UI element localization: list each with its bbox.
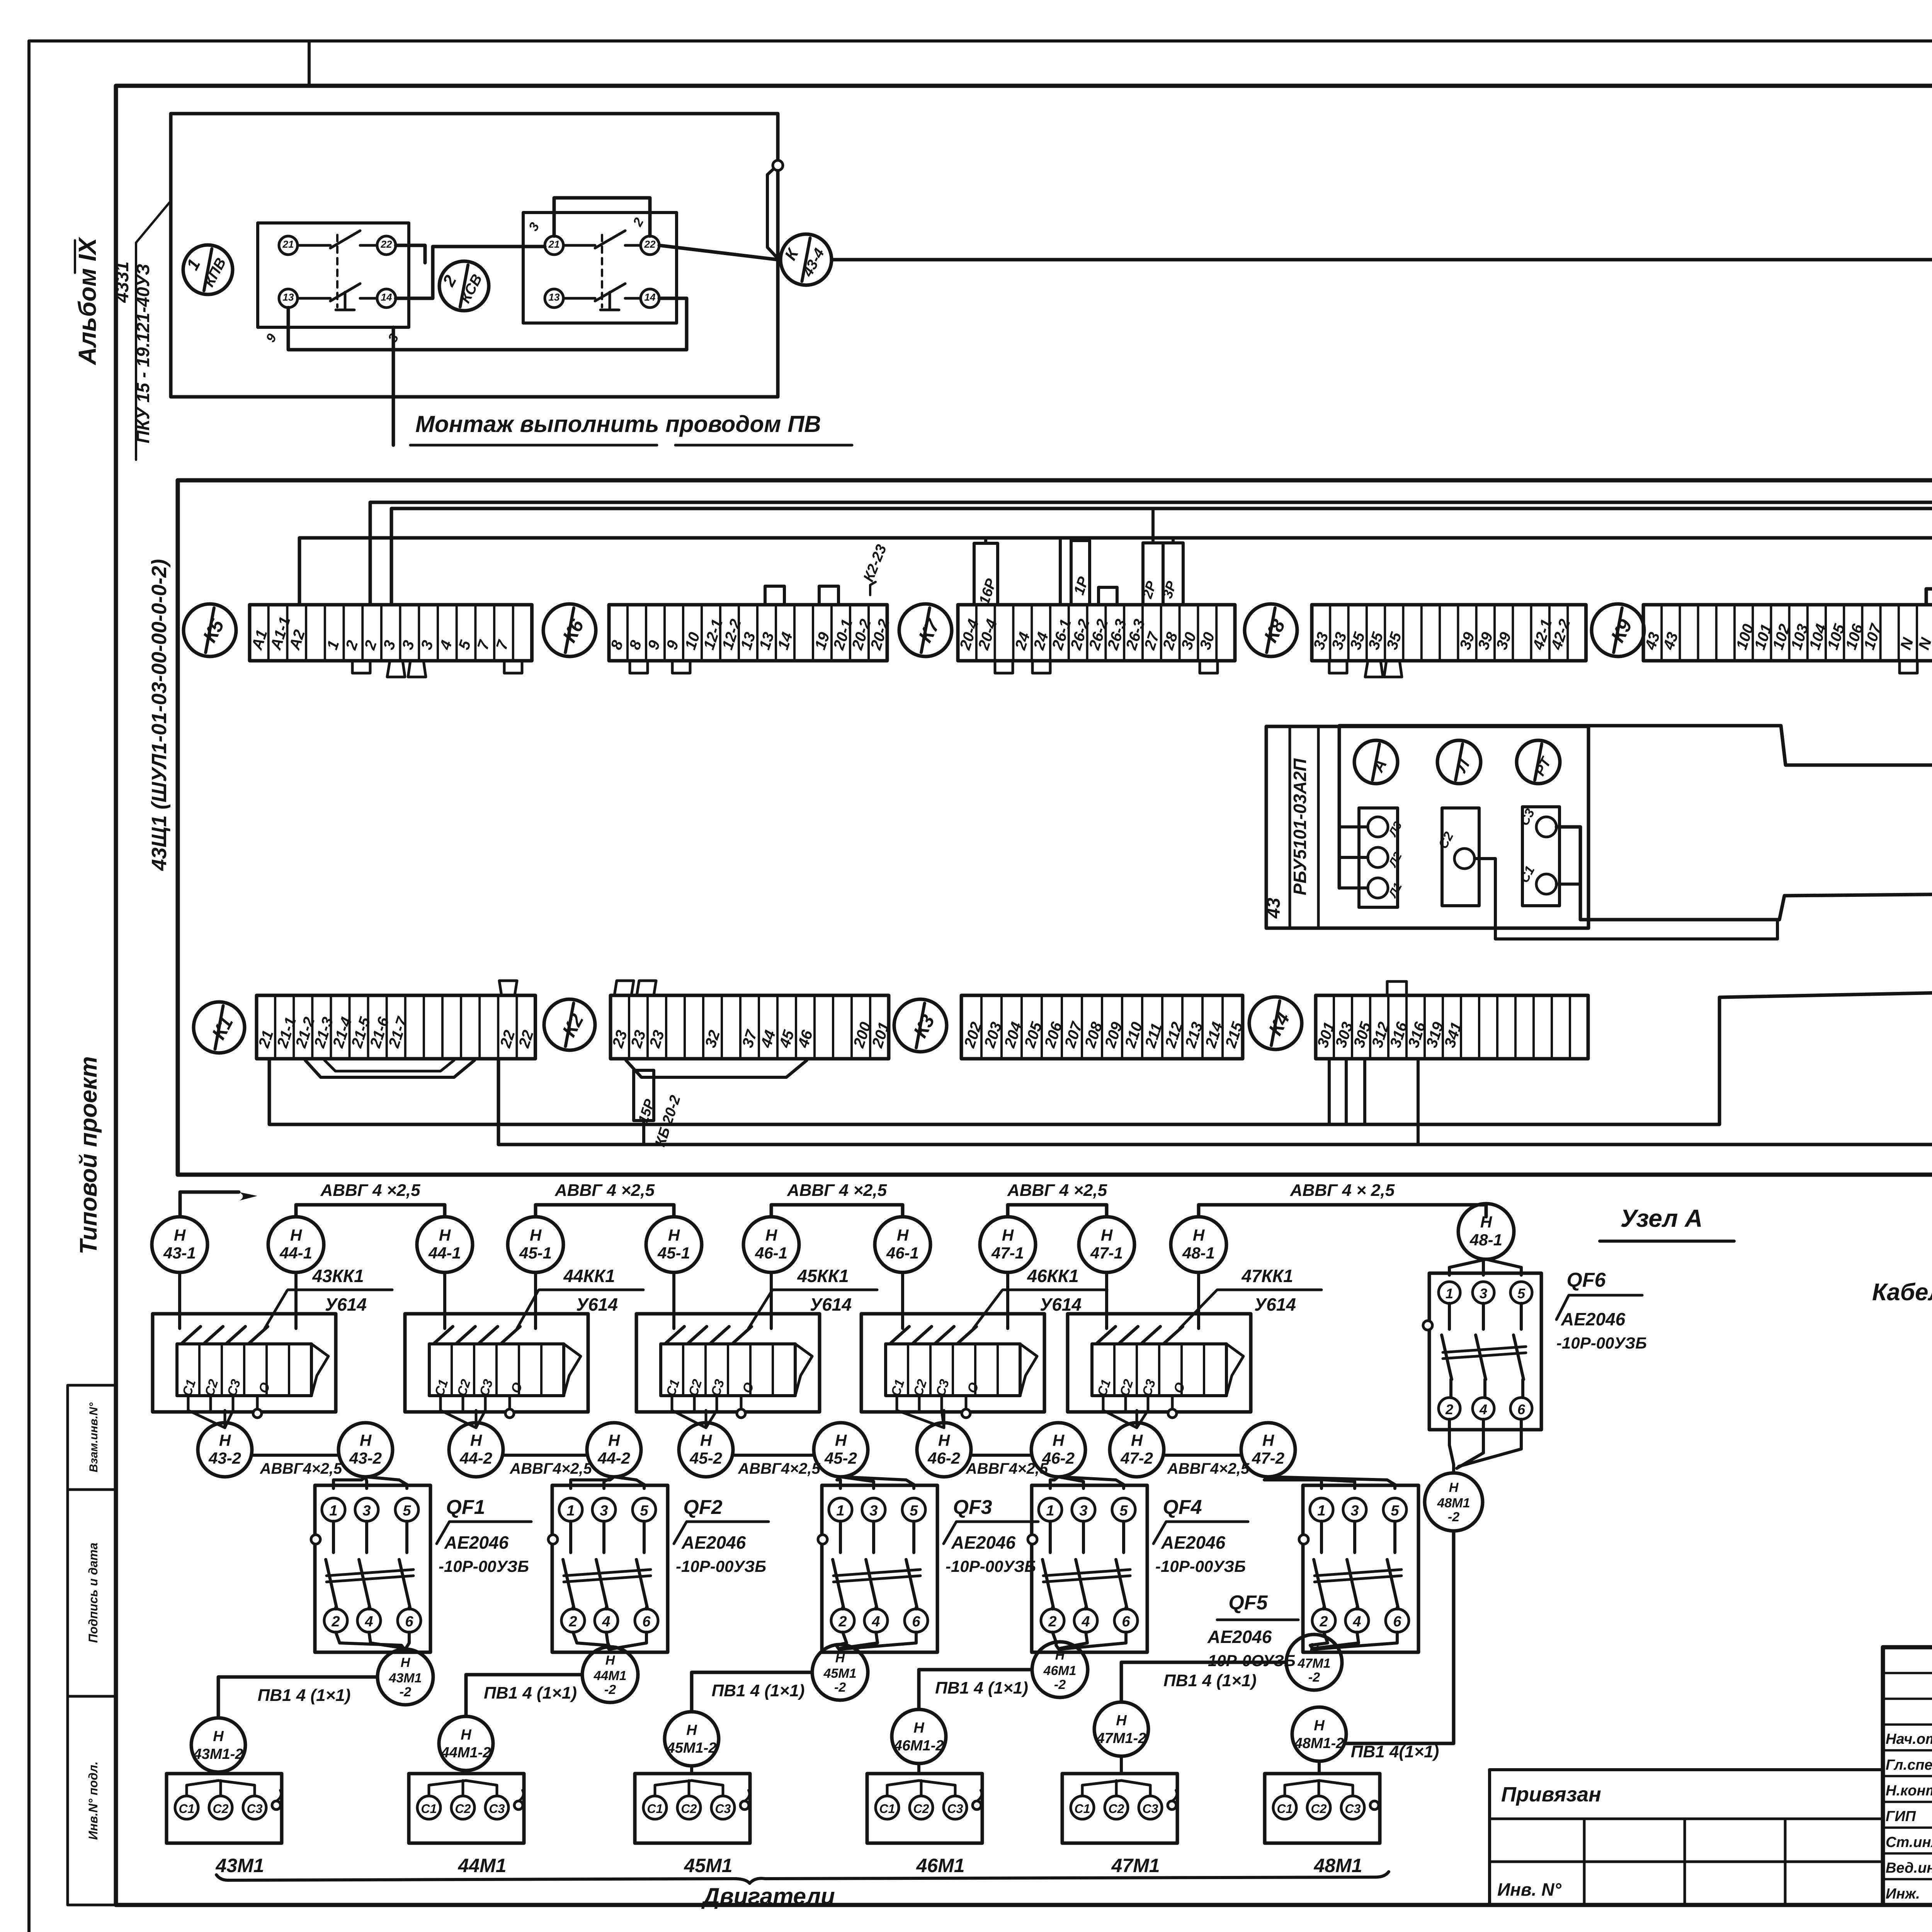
svg-text:-2: -2 [1054, 1677, 1066, 1692]
cable marker N45-2 (left) [679, 1423, 733, 1477]
bump above 20-1 [819, 586, 838, 605]
wire O cell to node [1171, 1396, 1174, 1409]
zone tick top border [308, 41, 311, 86]
svg-text:Н: Н [765, 1226, 778, 1244]
svg-text:6: 6 [1122, 1614, 1130, 1630]
svg-text:3: 3 [1350, 1503, 1359, 1519]
svg-text:Н: Н [1193, 1226, 1205, 1244]
breaker pole terminal 1 [322, 1498, 345, 1521]
svg-text:С3: С3 [715, 1802, 731, 1816]
cable marker N44M1-2 (upper) [582, 1647, 638, 1702]
breaker bottom merge [1053, 1632, 1060, 1651]
svg-text:С3: С3 [1143, 1802, 1158, 1816]
svg-text:-10Р-00УЗБ: -10Р-00УЗБ [439, 1557, 529, 1575]
svg-text:43-1: 43-1 [163, 1244, 196, 1262]
svg-text:4: 4 [1081, 1614, 1090, 1630]
relay cell strip [429, 1344, 564, 1396]
svg-text:4: 4 [871, 1614, 880, 1630]
svg-text:Типовой проект: Типовой проект [75, 1056, 102, 1255]
relay hatches [182, 1327, 201, 1343]
motor 48M1 terminal С3 [1341, 1796, 1364, 1819]
cable marker N44-2 (left) [449, 1423, 503, 1477]
feed fan [571, 1477, 614, 1488]
wire 13A to 14B [288, 298, 687, 350]
svg-text:С1: С1 [1075, 1802, 1090, 1816]
contact blade top A [298, 244, 330, 247]
remote control unit outer box 4331 [171, 114, 778, 397]
controller RBU5101-03A2P box [1266, 726, 1588, 928]
switch 1/KPV [183, 245, 233, 294]
cable marker N48-1 (outgoing) [1171, 1217, 1226, 1272]
breaker trip bar [833, 1570, 920, 1576]
terminal strip K2 [611, 995, 889, 1059]
svg-text:44-1: 44-1 [279, 1244, 312, 1262]
svg-text:АВВГ4×2,5: АВВГ4×2,5 [260, 1460, 342, 1477]
breaker QF2 box [552, 1485, 668, 1652]
feed fan [333, 1477, 366, 1488]
svg-text:Н: Н [290, 1226, 303, 1244]
wire C2 route [1475, 859, 1777, 939]
cable bracket AVVG [1199, 1205, 1486, 1217]
svg-text:4331: 4331 [112, 262, 133, 303]
svg-text:С3: С3 [247, 1802, 263, 1816]
svg-text:АЕ2046: АЕ2046 [1161, 1532, 1226, 1553]
motor 47M1 terminal box [1062, 1774, 1177, 1843]
wires L1-L3 left [1339, 825, 1368, 828]
svg-text:ПВ1 4 (1×1): ПВ1 4 (1×1) [712, 1681, 805, 1700]
svg-text:3: 3 [869, 1503, 878, 1519]
pin 13 of block B [545, 289, 563, 308]
breaker trip bar [327, 1570, 413, 1576]
breaker left node [548, 1535, 558, 1544]
svg-text:45-2: 45-2 [824, 1449, 857, 1467]
svg-text:Н: Н [461, 1727, 472, 1743]
svg-text:-10Р-00УЗБ: -10Р-00УЗБ [1155, 1557, 1246, 1575]
svg-text:44-1: 44-1 [428, 1244, 461, 1262]
switch 2/KSV [439, 261, 489, 311]
cable marker N46-1 (outgoing) [743, 1217, 799, 1272]
breaker pole terminal 3 [862, 1498, 885, 1521]
cable marker N43M1-2 (lower) [191, 1718, 245, 1772]
cable marker N43-2 (right) [338, 1423, 393, 1477]
breaker trip bar [1043, 1570, 1130, 1576]
svg-text:С2: С2 [1311, 1802, 1327, 1816]
motor terminal С3 [1139, 1796, 1162, 1819]
svg-text:-10Р-00УЗБ: -10Р-00УЗБ [676, 1557, 766, 1575]
svg-text:Н: Н [1131, 1431, 1143, 1449]
motor terminal С2 [910, 1796, 933, 1819]
cable marker N45M1-2 (upper) [812, 1645, 868, 1700]
svg-text:2: 2 [1319, 1614, 1328, 1630]
cable wire AVVG row2 [503, 1454, 587, 1457]
terminal strip K3 [961, 995, 1243, 1059]
svg-text:У614: У614 [325, 1294, 367, 1315]
svg-text:43-2: 43-2 [349, 1449, 382, 1467]
wire PV1 horizontal [466, 1675, 582, 1716]
svg-text:Н: Н [1449, 1480, 1459, 1495]
svg-text:44КК1: 44КК1 [563, 1266, 615, 1286]
svg-text:Подпись и дата: Подпись и дата [86, 1543, 100, 1643]
svg-text:46-1: 46-1 [755, 1244, 787, 1262]
svg-text:Н: Н [938, 1431, 951, 1449]
svg-text:Н: Н [608, 1431, 621, 1449]
svg-text:ПВ1 4 (1×1): ПВ1 4 (1×1) [1163, 1671, 1257, 1690]
relay bottom wires [439, 1396, 442, 1410]
svg-text:АВВГ 4 ×2,5: АВВГ 4 ×2,5 [554, 1181, 655, 1200]
motor terminal С1 [643, 1796, 667, 1819]
breaker QF6 box [1429, 1273, 1541, 1430]
breaker pole terminal 4 [1074, 1609, 1097, 1632]
svg-text:1: 1 [329, 1503, 337, 1519]
motor 48M1 wiring [1318, 1761, 1321, 1774]
svg-text:13: 13 [283, 291, 294, 303]
svg-text:Н: Н [700, 1431, 713, 1449]
cable marker N46-2 (right) [1031, 1423, 1085, 1477]
svg-text:5: 5 [1517, 1286, 1526, 1301]
svg-text:14: 14 [645, 291, 656, 303]
contact block B of PKU [523, 213, 677, 323]
svg-text:45М1: 45М1 [823, 1666, 856, 1681]
tabs above strip K2 cells 23 [614, 981, 634, 995]
QF6 left node [1423, 1321, 1432, 1330]
label divider line [135, 243, 137, 460]
svg-text:Н: Н [360, 1431, 372, 1449]
QF6 poles [1448, 1303, 1451, 1329]
breaker pole terminal 2 [324, 1609, 347, 1632]
wire 47-1 down [1105, 1272, 1108, 1328]
motor terminal С3 [711, 1796, 735, 1819]
relay hatches [666, 1327, 684, 1343]
relay cell strip [661, 1344, 795, 1396]
bump above 26-2 [1099, 587, 1117, 605]
breaker trip bar [564, 1570, 651, 1576]
terminal block L1 L2 L3 [1359, 808, 1398, 907]
svg-text:4: 4 [1479, 1401, 1487, 1417]
relay hatches [1097, 1327, 1116, 1343]
svg-text:С3: С3 [1345, 1802, 1361, 1816]
svg-text:С2: С2 [681, 1802, 697, 1816]
motor box wiring [464, 1770, 468, 1774]
breaker pole terminal 4 [595, 1609, 618, 1632]
svg-text:48М1-2: 48М1-2 [1294, 1735, 1344, 1752]
terminal block C1 C3 [1522, 807, 1560, 906]
motor terminal С3 [944, 1796, 967, 1819]
svg-text:АВВГ 4 ×2,5: АВВГ 4 ×2,5 [787, 1181, 887, 1200]
thermal relay 44KK1 box [405, 1314, 588, 1412]
svg-text:У614: У614 [810, 1294, 852, 1315]
cable marker N45-2 (right) [814, 1423, 868, 1477]
feed fan [837, 1477, 841, 1488]
breaker trip bar [1315, 1570, 1401, 1576]
wire 48-1 down [1197, 1272, 1200, 1328]
svg-text:47М1: 47М1 [1111, 1855, 1160, 1876]
svg-text:С2: С2 [1109, 1802, 1124, 1816]
contact blade bottom B [563, 297, 595, 300]
motor box wiring [1120, 1756, 1123, 1774]
svg-text:Кабельный журнал L 86: Кабельный журнал L 86 [1872, 1279, 1932, 1306]
indicator RT [1517, 740, 1560, 784]
title block signature rows [1883, 1672, 1932, 1674]
wire W3 to bus [1926, 589, 1932, 605]
svg-text:Монтаж выполнить проводом: Монтаж выполнить проводом ПВ [415, 411, 821, 437]
breaker QF5 box [1303, 1485, 1418, 1652]
svg-text:47-2: 47-2 [1120, 1449, 1153, 1467]
breaker bottom merge [836, 1632, 847, 1651]
wire 16R up [984, 538, 987, 543]
wire O cell to node [740, 1396, 743, 1409]
contact blade top B [563, 244, 595, 247]
svg-text:48М1: 48М1 [1313, 1855, 1362, 1876]
motor 48M1 terminal С1 [1273, 1796, 1296, 1819]
raised terminal 3R [1163, 543, 1183, 605]
relay right diagonal [1226, 1344, 1243, 1396]
wire PV1 horizontal [1121, 1662, 1286, 1701]
svg-text:С1: С1 [179, 1802, 195, 1816]
cable marker N45-1 [646, 1217, 702, 1272]
wire 22A right [396, 245, 425, 263]
svg-text:5: 5 [403, 1503, 411, 1519]
breaker pole terminal 2 [1041, 1609, 1064, 1632]
breaker bottom merge [336, 1632, 405, 1651]
svg-text:2: 2 [568, 1614, 577, 1630]
wire O cell to node [509, 1396, 511, 1409]
svg-text:АВВГ 4 ×2,5: АВВГ 4 ×2,5 [1007, 1181, 1107, 1200]
svg-text:Н: Н [1480, 1213, 1493, 1231]
svg-text:46-1: 46-1 [886, 1244, 919, 1262]
collector bracket under K2 strip [626, 1060, 807, 1077]
svg-text:РБУ5101-03А2П: РБУ5101-03А2П [1290, 758, 1310, 895]
svg-text:48-1: 48-1 [1182, 1244, 1215, 1262]
breaker bottom merge [1310, 1632, 1328, 1651]
pin 14 of block B [641, 289, 659, 308]
cable marker N47-2 (right) [1241, 1423, 1295, 1477]
svg-text:1: 1 [1317, 1503, 1325, 1519]
QF6 terminal 5 [1510, 1282, 1532, 1303]
wire W1b [391, 509, 1932, 605]
svg-text:Н: Н [174, 1226, 186, 1244]
tabs below strip K6 [630, 661, 648, 673]
wire W5 to K49Ya1 [269, 990, 1932, 1124]
thermal relay 43KK1 box [153, 1314, 336, 1412]
cable marker N45-1 (outgoing) [508, 1217, 563, 1272]
tab above strip K4 [1387, 981, 1406, 995]
cable marker N43-1 [152, 1217, 207, 1272]
breaker pole terminal 5 [1383, 1498, 1406, 1521]
cable marker N44-2 (right) [587, 1423, 641, 1477]
QF6 feed fan [1449, 1259, 1486, 1275]
svg-text:ПКУ 15 - 19.121-40УЗ: ПКУ 15 - 19.121-40УЗ [133, 264, 153, 444]
svg-text:-2: -2 [834, 1680, 846, 1695]
svg-text:14: 14 [381, 291, 392, 303]
svg-text:13: 13 [549, 291, 560, 303]
terminal strip K6 [609, 605, 887, 661]
svg-text:АВВГ4×2,5: АВВГ4×2,5 [1167, 1460, 1250, 1477]
svg-text:-2: -2 [400, 1685, 411, 1699]
linkage dashed B [601, 235, 603, 307]
svg-text:3: 3 [1079, 1503, 1087, 1519]
breaker pole terminal 6 [1386, 1609, 1409, 1632]
terminal strip K4 [1316, 995, 1588, 1059]
breaker pole terminal 6 [1114, 1609, 1138, 1632]
relay bottom wires [671, 1396, 673, 1410]
svg-text:Н: Н [668, 1226, 680, 1244]
svg-text:6: 6 [912, 1614, 920, 1630]
relay cell strip [1092, 1344, 1226, 1396]
svg-text:ПВ1 4 (1×1): ПВ1 4 (1×1) [258, 1686, 351, 1705]
motor 46M1 terminal box [867, 1774, 982, 1843]
cable bracket AVVG [771, 1205, 903, 1217]
svg-text:3: 3 [600, 1503, 608, 1519]
svg-text:4: 4 [364, 1614, 373, 1630]
svg-text:5: 5 [1391, 1503, 1399, 1519]
svg-text:АЕ2046: АЕ2046 [1561, 1309, 1626, 1329]
breaker QF3 box [822, 1485, 937, 1652]
contact blade bottom A [298, 297, 330, 300]
terminal strip K1 [257, 995, 536, 1059]
cable marker N47-2 (left) [1110, 1423, 1164, 1477]
svg-text:С1: С1 [879, 1802, 895, 1816]
pin 14 of block A [377, 289, 396, 308]
svg-text:Н: Н [913, 1720, 925, 1736]
svg-text:АВВГ 4 × 2,5: АВВГ 4 × 2,5 [1290, 1181, 1395, 1200]
svg-text:Альбом IХ: Альбом IХ [73, 237, 101, 366]
svg-text:2: 2 [838, 1614, 847, 1630]
breaker poles [1049, 1521, 1052, 1553]
thermal relay 45KK1 box [636, 1314, 820, 1412]
svg-text:22: 22 [381, 238, 392, 250]
svg-text:22: 22 [644, 238, 656, 250]
svg-text:46М1-2: 46М1-2 [894, 1738, 944, 1754]
motor 44M1 terminal box [409, 1774, 524, 1843]
wire PV1 horizontal [692, 1672, 812, 1711]
svg-text:1: 1 [566, 1503, 575, 1519]
svg-text:АЕ2046: АЕ2046 [681, 1532, 746, 1553]
breaker pole terminal 5 [902, 1498, 925, 1521]
svg-text:46КК1: 46КК1 [1027, 1266, 1078, 1286]
svg-text:Узел А: Узел А [1621, 1204, 1703, 1232]
svg-text:46М1: 46М1 [916, 1855, 964, 1876]
breaker poles [839, 1521, 842, 1553]
cable marker N43-2 (left) [198, 1423, 252, 1477]
motor terminal С2 [209, 1796, 232, 1819]
svg-text:-10Р-00УЗБ: -10Р-00УЗБ [946, 1557, 1036, 1575]
wire from 15R [642, 1121, 645, 1145]
breaker pole terminal 5 [395, 1498, 418, 1521]
wire PV1 horizontal [919, 1670, 1032, 1709]
breaker pole terminal 2 [1312, 1609, 1335, 1632]
svg-text:21: 21 [548, 238, 560, 250]
stamp box Inv.N podl [68, 1696, 116, 1905]
wire 43-1 down [178, 1272, 181, 1328]
wire C3 C1 to node A circle [1556, 827, 1932, 920]
breaker poles [332, 1521, 335, 1553]
motor terminal С1 [417, 1796, 440, 1819]
breaker pole terminal 3 [592, 1498, 616, 1521]
wire 14A to 21B [396, 247, 545, 298]
svg-text:Ст.инж: Ст.инж [1886, 1834, 1932, 1850]
svg-text:Н: Н [213, 1728, 224, 1745]
motor box wiring [917, 1764, 920, 1774]
svg-text:Двигатели: Двигатели [701, 1883, 835, 1909]
svg-text:45М1: 45М1 [684, 1855, 732, 1876]
svg-text:5: 5 [640, 1503, 648, 1519]
svg-text:47-1: 47-1 [1090, 1244, 1123, 1262]
wire K43-4 cable [832, 260, 1932, 503]
raised terminal 16R [974, 543, 998, 605]
breaker pole terminal 2 [561, 1609, 585, 1632]
QF6 trip bar [1443, 1347, 1526, 1352]
breaker pole terminal 1 [829, 1498, 852, 1521]
cable marker N48M1-2 (upper) [1425, 1473, 1483, 1531]
breaker pole terminal 4 [357, 1609, 381, 1632]
breaker pole terminal 4 [864, 1609, 888, 1632]
terminal strip K7 [958, 605, 1235, 661]
cable marker K43-4 (left) [781, 234, 832, 285]
indicator L [1437, 740, 1481, 784]
wire 2R up [1151, 509, 1155, 543]
linkage dashed A [336, 235, 338, 307]
svg-text:45-2: 45-2 [689, 1449, 722, 1467]
motor 48M1 terminal С2 [1307, 1796, 1330, 1819]
wire 3R up [1172, 538, 1175, 543]
stamp box Podpis i data [68, 1490, 116, 1696]
breaker pole terminal 4 [1345, 1609, 1369, 1632]
thermal relay 47KK1 box [1068, 1314, 1251, 1412]
cable marker N44-1 [417, 1217, 473, 1272]
relay hatches [891, 1327, 909, 1343]
svg-text:АВВГ4×2,5: АВВГ4×2,5 [738, 1460, 820, 1477]
QF6 terminal 4 [1473, 1398, 1494, 1419]
breaker QF4 box [1032, 1485, 1147, 1652]
tabs below strip K5 [352, 661, 370, 673]
contact block A of PKU [258, 223, 409, 327]
svg-text:44-2: 44-2 [597, 1449, 630, 1467]
svg-text:ПВ1 4 (1×1): ПВ1 4 (1×1) [935, 1679, 1028, 1697]
svg-text:-2: -2 [604, 1682, 616, 1697]
svg-text:Н: Н [401, 1655, 411, 1670]
svg-text:3: 3 [362, 1503, 371, 1519]
cabinet 43Sch1 box [178, 480, 1932, 1175]
motor 45M1 terminal box [635, 1774, 750, 1843]
cable marker N46M1-2 (lower) [892, 1709, 946, 1764]
title block outer [1883, 1647, 1932, 1905]
wire O cell to node [965, 1396, 968, 1409]
pin 22 of block A [377, 236, 396, 255]
cable bracket AVVG [536, 1205, 674, 1217]
svg-text:Инв.N° подл.: Инв.N° подл. [86, 1761, 100, 1840]
svg-text:44М1: 44М1 [593, 1668, 626, 1683]
svg-text:Н: Н [605, 1653, 616, 1668]
QF6 bottom merge [1449, 1419, 1454, 1473]
motor terminal С2 [677, 1796, 701, 1819]
breaker pole terminal 6 [398, 1609, 421, 1632]
svg-text:QF3: QF3 [953, 1496, 992, 1519]
note leader wire [392, 327, 395, 445]
svg-text:44-2: 44-2 [459, 1449, 492, 1467]
relay right diagonal [795, 1344, 812, 1396]
svg-text:46-2: 46-2 [927, 1449, 960, 1467]
cable marker N45M1-2 (lower) [665, 1712, 719, 1766]
pin 21 of block B [545, 236, 563, 255]
indicator A [1354, 740, 1398, 784]
wire QF6 down to 48M1 [1346, 1531, 1454, 1743]
svg-text:Н: Н [1101, 1226, 1113, 1244]
breaker pole terminal 1 [1039, 1498, 1062, 1521]
svg-text:Инж.: Инж. [1886, 1886, 1920, 1902]
tabs below strip K8 [1329, 661, 1347, 673]
breaker pole terminal 6 [635, 1609, 658, 1632]
cable marker N48-1 [1458, 1204, 1514, 1259]
